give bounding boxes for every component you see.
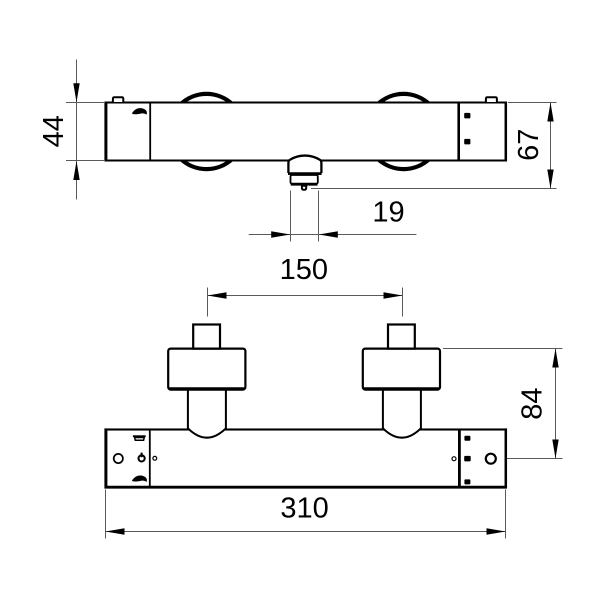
dim 150: extension line left [207, 288, 209, 317]
dim 19: arrow right [271, 231, 290, 237]
spout dome bottom thick line [288, 172, 322, 175]
svg-text:19: 19 [372, 197, 404, 229]
dim 84: dimension line [555, 349, 557, 459]
front view: left cap lever icon [132, 475, 147, 482]
dim 310: extension line left [105, 490, 107, 539]
front view: left knob body [168, 349, 245, 390]
dim 44: arrow down [73, 83, 79, 102]
front view: small screw right [452, 457, 456, 461]
front view: bar bottom thick edge [105, 486, 508, 489]
top view: right cap separation line [457, 103, 460, 160]
dim 84: arrow down [552, 440, 558, 459]
top view: left top tab [113, 97, 123, 102]
svg-text:44: 44 [38, 115, 70, 147]
dim 84: extension line top [443, 348, 563, 350]
top view: right cap port square 1 [464, 113, 470, 119]
dim 310: dimension line [106, 531, 506, 533]
dim 44: arrow up [73, 161, 79, 180]
front view: small screw left [153, 456, 157, 460]
dim 19: arrow left [319, 231, 338, 237]
dim 19: dimension line [249, 234, 417, 236]
dim 310: extension line right [505, 490, 507, 539]
front view: right cap port square 1 [464, 436, 470, 441]
front view: right cap separation line [458, 430, 461, 486]
svg-text:310: 310 [280, 492, 328, 524]
dim 44: dimension line [76, 60, 78, 200]
front view: mixer bar body [106, 430, 506, 488]
top view: bar right end edge [505, 102, 508, 162]
front view: left knob stem [188, 389, 226, 438]
top view: right knob circle [366, 94, 441, 169]
front view: bar left thick edge [104, 428, 107, 488]
dim 19: extension line left [290, 191, 292, 242]
top view: right top tab [486, 97, 497, 102]
top view: mixer bar body [106, 103, 506, 161]
front view: left cap power icon circle [139, 455, 145, 461]
front view: right knob stem [383, 389, 421, 438]
top view: right cap port square 2 [464, 139, 470, 145]
front view: right knob top square [388, 325, 415, 349]
dim 150: arrow right [384, 292, 403, 298]
front view: right cap outlet ring [486, 454, 496, 464]
front view: right knob body bottom thick line [364, 387, 440, 390]
front view: right knob body [363, 349, 440, 390]
dim 150: extension line right [402, 288, 404, 317]
top view: left cap lever icon [132, 108, 147, 115]
dim 67: extension line top [508, 102, 557, 104]
dim 67: dimension line [550, 103, 552, 189]
front view: right cap port square 2 [464, 456, 471, 462]
dim 44: extension line top [66, 102, 104, 104]
top view: left cap separation line [149, 103, 151, 160]
dim 150: arrow left [208, 292, 227, 298]
dim 67: arrow down [547, 170, 553, 189]
dim 150: dimension line [208, 295, 403, 297]
dim 67: extension line bottom (leader from spout) [311, 188, 557, 190]
dim 310: arrow right [487, 528, 506, 534]
top view: left knob circle [169, 94, 244, 169]
dim 84: arrow up [552, 349, 558, 368]
front view: left cap power icon tick [141, 453, 143, 458]
spout dome [288, 156, 321, 173]
spout lower block bottom thick line [291, 183, 318, 186]
svg-text:84: 84 [517, 387, 549, 419]
front view: right cap port square 3 [464, 479, 470, 484]
spout outlet stem [302, 186, 306, 190]
front view: left cap separation line [149, 430, 151, 486]
dim 67: arrow up [547, 103, 553, 122]
top view: bar left end thick edge [104, 102, 107, 162]
spout lower block [291, 175, 318, 184]
dim 44: extension line bottom [66, 160, 104, 162]
svg-text:67: 67 [513, 129, 545, 161]
svg-text:150: 150 [280, 254, 328, 286]
front view: left knob body bottom thick line [169, 387, 245, 390]
dim 310: arrow left [106, 528, 125, 534]
dim 19: extension line right [318, 191, 320, 242]
front view: left cap ring [114, 454, 123, 463]
front view: left knob top square [193, 325, 220, 349]
dim 84: extension line bottom [498, 458, 563, 460]
front view: left cap shelf icon [133, 435, 146, 437]
front view: bar right edge [505, 428, 508, 488]
